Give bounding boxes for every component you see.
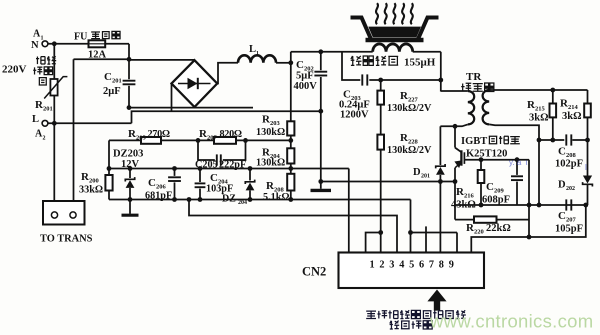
node emitter (453, 179, 458, 184)
svg-text:TR: TR (466, 71, 482, 83)
svg-text:820Ω: 820Ω (220, 129, 242, 140)
resistor R216 43k (478, 160, 485, 205)
wire pin5 link (408, 200, 413, 253)
svg-text:R200: R200 (81, 171, 99, 185)
svg-text:R220: R220 (466, 222, 484, 236)
wire coil to right corner (413, 51, 441, 53)
fuse FU 12A (74, 31, 121, 60)
resistor R204 130k (256, 147, 294, 169)
svg-text:681pF: 681pF (145, 191, 172, 202)
label cooktop coil (351, 56, 436, 69)
TO TRANS box (40, 201, 93, 245)
svg-text:130kΩ/2V: 130kΩ/2V (387, 103, 432, 114)
svg-text:5μF: 5μF (296, 71, 314, 82)
node 168-wire left (107, 166, 112, 171)
svg-text:5: 5 (409, 260, 414, 271)
svg-text:8: 8 (439, 260, 444, 271)
svg-text:2: 2 (43, 136, 46, 142)
svg-text:L: L (32, 114, 39, 125)
wire pin2 link (366, 230, 384, 252)
wire DC+ top rail (291, 51, 342, 53)
wire top rail to coil (342, 51, 373, 53)
wire 215-rail (187, 197, 397, 252)
svg-text:155μH: 155μH (404, 57, 436, 69)
node secondary riser / C208 rail (537, 138, 542, 143)
node C201 bottom (127, 105, 132, 110)
node secondary top / R215 (550, 88, 555, 93)
svg-text:CN2: CN2 (302, 265, 326, 279)
wire DC- bus (129, 107, 253, 109)
svg-text:1: 1 (256, 51, 259, 57)
inductor L1 (238, 44, 276, 63)
wire C202 ground node (318, 179, 323, 184)
ground mid (311, 182, 332, 191)
svg-text:1: 1 (41, 36, 44, 42)
wire L line (48, 122, 131, 124)
capacitor C208 102pF (555, 134, 583, 169)
node C207 right (583, 203, 588, 208)
wire R208 bottom (290, 191, 292, 200)
svg-text:TO TRANS: TO TRANS (40, 234, 93, 245)
node DC+ at R203 riser (288, 60, 293, 65)
node R216 bottom (479, 203, 484, 208)
resistor R200 33k (79, 171, 113, 196)
svg-text:204: 204 (238, 200, 247, 206)
svg-text:R205: R205 (128, 128, 146, 142)
wire N line (48, 43, 129, 45)
node L-varistor junction (52, 121, 57, 126)
caption pulse/overvoltage detection (366, 310, 466, 329)
wire C208 rail (539, 139, 588, 141)
bridge rectifier (172, 60, 218, 107)
transformer TR label (461, 71, 494, 91)
svg-text:C208: C208 (558, 146, 576, 160)
node C203/R227 (378, 78, 383, 83)
node R216 top (479, 157, 484, 162)
svg-text:D: D (413, 167, 421, 178)
TR secondary (483, 90, 588, 140)
svg-text:N: N (31, 40, 39, 51)
svg-text:R214: R214 (560, 98, 578, 112)
ground below DZ203 (122, 200, 139, 216)
diode D202 (558, 140, 592, 205)
wire mid rail (109, 168, 349, 170)
svg-text:270Ω: 270Ω (148, 129, 170, 140)
svg-text:2: 2 (379, 260, 384, 271)
svg-text:www.cntronics.com: www.cntronics.com (429, 311, 593, 332)
svg-text:DZ: DZ (222, 194, 236, 205)
svg-text:22kΩ: 22kΩ (486, 223, 511, 234)
svg-text:6: 6 (419, 260, 424, 271)
svg-text:3: 3 (389, 260, 394, 271)
capacitor C207 105pF (555, 199, 583, 234)
node AC bus / C202 junction (318, 109, 323, 114)
node C205 right (243, 138, 248, 143)
wire emitter rail (321, 181, 455, 183)
svg-text:L: L (249, 44, 256, 55)
svg-text:R203: R203 (262, 114, 280, 128)
wire low gate rail (455, 204, 586, 206)
zener DZ204 (222, 166, 255, 206)
resistor R203 130k (256, 114, 294, 139)
wire coil loop right (440, 52, 442, 92)
svg-text:R215: R215 (527, 99, 545, 113)
svg-text:FU: FU (74, 32, 87, 43)
svg-text:y. a ι: y. a ι (509, 158, 528, 167)
wire R203-R204 (290, 136, 292, 149)
svg-text:130kΩ/2V: 130kΩ/2V (387, 145, 432, 156)
wire low rail (109, 199, 411, 201)
wire N bus to bridge top (129, 59, 195, 61)
node TR riser bottom (537, 203, 542, 208)
node R208 bottom (288, 197, 293, 202)
svg-text:R227: R227 (400, 90, 418, 104)
resistor R214 3k (560, 90, 591, 140)
terminal L/A2 (32, 114, 48, 142)
wire pin6 (425, 226, 427, 252)
node C208 right (585, 138, 590, 143)
blue artifact marks (509, 158, 587, 172)
resistor R228 130k/2V (377, 132, 432, 253)
svg-text:202: 202 (566, 186, 575, 192)
svg-text:C201: C201 (104, 71, 122, 85)
svg-text:R228: R228 (400, 132, 418, 146)
wire TR riser low (538, 140, 540, 205)
svg-text:R207: R207 (199, 128, 217, 142)
svg-text:DZ203: DZ203 (113, 149, 143, 160)
wire bridge out to L1 (217, 63, 238, 84)
node R215 bottom (550, 138, 555, 143)
IGBT K25T120 (455, 126, 520, 181)
node top rail / C202 (318, 49, 323, 54)
capacitor C202 5uF 400V (294, 52, 328, 182)
resistor R220 22k (455, 216, 529, 235)
node C201 top (127, 57, 132, 62)
diode D201 (413, 126, 445, 252)
connector CN2 (302, 253, 484, 289)
wire L up to AC bus (132, 111, 321, 123)
svg-text:IGBT: IGBT (461, 136, 487, 147)
svg-text:R216: R216 (456, 186, 474, 200)
arrow to detection circuit (427, 290, 446, 311)
varistor R201 (220V) (2, 44, 67, 201)
node TR bottom / collector (453, 124, 458, 129)
wire R204-R208 (290, 164, 292, 174)
svg-text:l: l (585, 163, 587, 172)
svg-text:C207: C207 (558, 210, 576, 224)
svg-text:4: 4 (399, 260, 404, 271)
wire emitter down (454, 182, 456, 220)
svg-text:12V: 12V (121, 159, 140, 170)
capacitor C205 222pF (195, 140, 246, 170)
wire R200 bottom (108, 191, 110, 200)
svg-text:9: 9 (449, 260, 454, 271)
capacitor C209 608pF (482, 157, 523, 205)
svg-text:R201: R201 (35, 99, 53, 113)
wire coil loop left (342, 52, 360, 80)
svg-text:400V: 400V (294, 81, 318, 92)
svg-text:105pF: 105pF (555, 224, 583, 235)
svg-text:K25T120: K25T120 (466, 149, 507, 160)
resistor R215 3k (527, 90, 556, 140)
wire R203 riser (290, 52, 292, 122)
wire bridge AC2 drop (171, 83, 173, 112)
svg-text:D: D (558, 180, 566, 191)
wire box top (74, 58, 130, 60)
resistor R207 820 (199, 128, 242, 144)
node N-varistor junction (52, 41, 57, 46)
node divider at 270-ohm wire (288, 138, 293, 143)
capacitor C201 (103, 59, 135, 107)
capacitor C203 0.24uF (339, 74, 441, 120)
node riser-237 junction (527, 235, 532, 240)
capacitor C206 681pF (145, 166, 181, 202)
wire fuse to C201 top (128, 44, 130, 60)
svg-text:5.1kΩ: 5.1kΩ (263, 192, 290, 203)
wire 270-ohm rail (109, 139, 291, 141)
svg-text:7: 7 (429, 260, 434, 271)
resistor R227 130k/2V (377, 80, 432, 135)
svg-text:1200V: 1200V (340, 110, 369, 121)
wire R205 left drop (108, 140, 110, 175)
svg-text:130kΩ: 130kΩ (256, 127, 285, 138)
svg-text:201: 201 (421, 174, 430, 180)
wire link to pin8 stub (411, 233, 458, 253)
label R216 (451, 186, 476, 211)
svg-text:608pF: 608pF (482, 195, 510, 206)
watermark (429, 311, 593, 332)
wire left vertical to TO TRANS (73, 59, 75, 201)
svg-text:1: 1 (370, 260, 375, 271)
node loop right (438, 78, 443, 83)
terminal A1/N (31, 29, 48, 52)
svg-text:102pF: 102pF (555, 159, 583, 170)
zener DZ203 12V (113, 149, 143, 200)
svg-text:3kΩ: 3kΩ (562, 111, 582, 122)
resistor R205 270 (128, 128, 170, 144)
wire gate-rail riser (528, 160, 530, 237)
cooktop coil 155uH (373, 44, 413, 52)
steam (376, 3, 413, 24)
resistor R208 5.1k (263, 174, 294, 203)
wire L1 to node (276, 62, 291, 64)
svg-text:C206: C206 (148, 177, 166, 191)
wire gate (464, 159, 529, 161)
wire right drop to CN2 (471, 205, 586, 253)
wire mid rail to CN2 pin1 (348, 169, 350, 253)
svg-text:C209: C209 (486, 181, 504, 195)
node C205 left (196, 138, 201, 143)
svg-text:220V: 220V (2, 64, 27, 76)
TR primary (440, 91, 474, 126)
pot icon (353, 18, 437, 41)
svg-text:3kΩ: 3kΩ (529, 113, 549, 124)
node riser crossing (527, 203, 532, 208)
node DZ203 bottom (128, 197, 133, 202)
node R204/R208 tap (288, 166, 293, 171)
svg-text:33kΩ: 33kΩ (79, 185, 103, 196)
svg-text:2μF: 2μF (103, 86, 121, 97)
svg-text:130kΩ: 130kΩ (256, 158, 285, 169)
capacitor C204 103pF (195, 166, 234, 202)
